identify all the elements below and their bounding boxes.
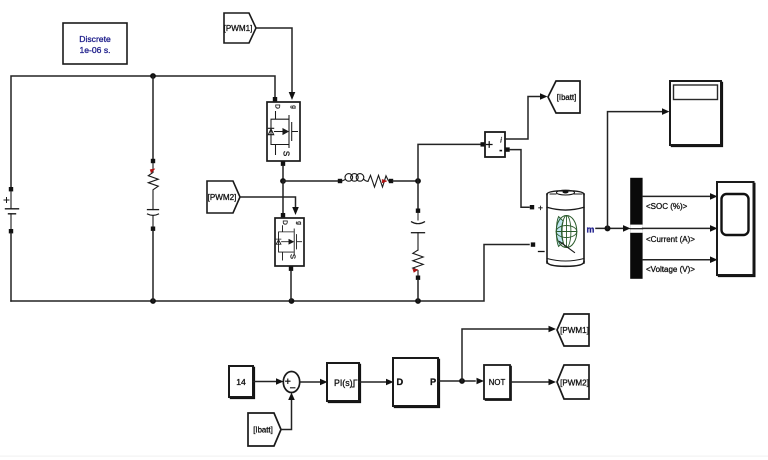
node: junction bottom rail / MOSFET2 source <box>289 298 295 304</box>
svg-text:[PWM2]: [PWM2] <box>560 379 589 388</box>
wire: top rail from DC source to MOSFET1 drain <box>11 76 275 187</box>
svg-text:D: D <box>281 220 288 225</box>
NOT block <box>484 365 511 400</box>
svg-text:PI(s): PI(s) <box>334 378 353 388</box>
svg-text:g: g <box>296 221 303 225</box>
MOSFET Q1 <box>267 97 300 166</box>
svg-text:NOT: NOT <box>489 378 506 387</box>
arrowhead into Ibatt goto <box>540 93 548 100</box>
wire: RL branch to output node <box>393 180 418 182</box>
arrowhead into NOT <box>477 378 485 385</box>
wire: junction up to PWM1 goto <box>462 329 549 381</box>
constant block 14 <box>229 366 254 398</box>
arrowhead into MOSFET2 gate <box>292 207 299 215</box>
arrowhead Current into scope <box>710 225 718 232</box>
svg-text:Discrete: Discrete <box>79 34 111 44</box>
wire: left down rail <box>10 233 12 301</box>
svg-text:<SOC (%)>: <SOC (%)> <box>646 202 688 211</box>
svg-text:14: 14 <box>236 377 246 387</box>
wire: sum to PI controller <box>300 381 320 383</box>
current measurement block <box>481 132 510 157</box>
arrowhead Voltage into scope <box>710 256 718 263</box>
goto tag [PWM2] <box>557 365 589 399</box>
wire: PWM generator output <box>438 380 475 382</box>
series RC snubber branch <box>412 181 425 301</box>
arrowhead SOC into scope <box>710 193 718 200</box>
wire: output node up to current sensor <box>418 144 481 181</box>
svg-text:S: S <box>289 254 298 259</box>
goto tag [Ibatt] <box>548 81 580 113</box>
MOSFET Q2 <box>275 213 304 271</box>
svg-text:<Voltage (V)>: <Voltage (V)> <box>646 265 695 274</box>
arrowhead into PI <box>320 379 328 386</box>
svg-text:[PWM1]: [PWM1] <box>224 24 253 33</box>
arrowhead into PWM2 goto <box>549 379 557 386</box>
wire: Ibatt tag to sum <box>281 399 292 430</box>
wire: junction up to display <box>608 112 664 229</box>
arrowhead into bus selector <box>623 225 631 232</box>
arrowhead into PWM1 goto <box>549 326 557 333</box>
battery block <box>547 190 584 266</box>
node: junction MOSFET1/MOSFET2/RL branch <box>280 178 286 184</box>
arrowhead into display <box>662 108 670 115</box>
wire: MOSFET1 source to mid node <box>282 166 284 181</box>
svg-text:D: D <box>274 104 281 109</box>
series RL branch (inductor + resistor) <box>338 174 393 187</box>
wire: battery m output to bus selector <box>596 227 624 229</box>
node: junction top rail / RC filter branch <box>150 73 156 79</box>
port: battery plus port <box>530 205 534 209</box>
display block <box>670 81 722 146</box>
wire: NOT to PWM2 goto <box>510 381 549 383</box>
sum block <box>283 372 299 393</box>
DC voltage source V1 <box>4 187 19 233</box>
scope block <box>717 182 755 276</box>
svg-text:[Ibatt]: [Ibatt] <box>557 93 577 102</box>
svg-text:m: m <box>587 225 595 235</box>
PWM generator block D/P <box>393 358 439 407</box>
node: junction PWM signal <box>459 378 465 384</box>
annotation: Discrete 1e-06 s. block <box>63 23 127 64</box>
arrowhead into PWM generator <box>386 379 394 386</box>
wire: PWM2 tag to MOSFET2 gate <box>240 197 296 208</box>
wire: constant to sum <box>253 381 276 383</box>
arrowhead into MOSFET1 gate <box>289 92 296 100</box>
wire: current sensor i output to Ibatt goto <box>505 97 543 140</box>
wire: PI to PWM generator <box>359 381 386 383</box>
svg-text:D: D <box>397 377 404 387</box>
wire: mid node to RL branch <box>283 180 338 182</box>
wire: current sensor minus output to battery plus <box>510 150 529 208</box>
svg-text:+: + <box>538 203 543 213</box>
svg-text:1e-06 s.: 1e-06 s. <box>79 45 110 55</box>
wire: bottom rail <box>11 245 529 302</box>
svg-text:[PWM1]: [PWM1] <box>560 326 589 335</box>
goto tag [PWM1] <box>557 314 589 346</box>
arrowhead into sum <box>276 378 284 385</box>
wire: MOSFET2 source to bottom rail <box>290 271 292 301</box>
svg-text:P: P <box>430 377 436 387</box>
wire: bus output Voltage <box>643 259 711 261</box>
svg-text:g: g <box>290 105 297 109</box>
wire: PWM1 tag to MOSFET1 gate <box>256 28 292 93</box>
node: junction bottom rail / snubber branch <box>415 298 421 304</box>
svg-text:[Ibatt]: [Ibatt] <box>253 426 273 435</box>
wire: bus output Current <box>643 227 711 229</box>
node: junction bottom rail / RC branch <box>150 298 156 304</box>
port: battery minus port <box>531 242 535 246</box>
wire: bus output SOC <box>643 195 711 197</box>
bus selector <box>630 178 642 279</box>
from tag [Ibatt] (bottom) <box>248 413 281 446</box>
svg-text:S: S <box>282 151 291 156</box>
series RC branch (input filter) <box>148 76 159 301</box>
from tag [PWM2] <box>207 181 240 213</box>
from tag [PWM1] <box>224 13 256 43</box>
arrowhead into sum bottom <box>288 393 295 401</box>
faint window edge line at bottom <box>0 456 768 457</box>
wire: mid node down to MOSFET2 drain <box>282 181 284 213</box>
PI controller block <box>327 363 360 402</box>
svg-text:[PWM2]: [PWM2] <box>208 193 237 202</box>
battery cell icon <box>556 216 577 253</box>
svg-text:<Current (A)>: <Current (A)> <box>646 235 695 244</box>
node: junction m wire / display branch <box>605 225 611 231</box>
node: output junction <box>415 178 421 184</box>
